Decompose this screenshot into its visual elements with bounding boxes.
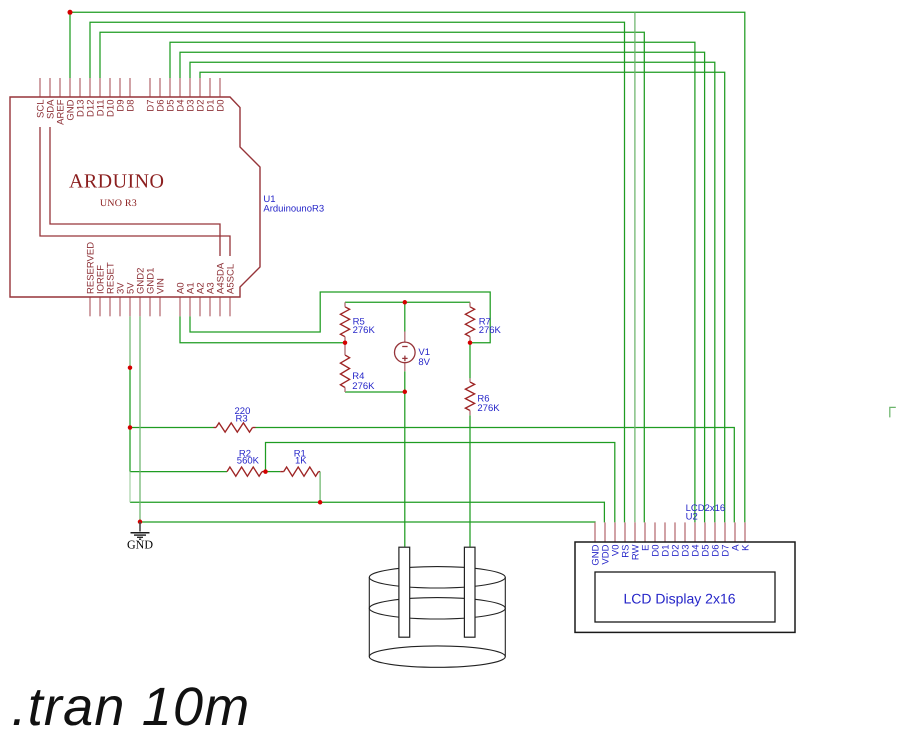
svg-text:U2: U2 <box>686 512 698 523</box>
svg-text:.tran 10m: .tran 10m <box>12 677 251 737</box>
svg-text:276K: 276K <box>353 325 376 336</box>
svg-text:8V: 8V <box>418 357 430 368</box>
svg-text:276K: 276K <box>352 381 375 392</box>
svg-text:ArduinounoR3: ArduinounoR3 <box>263 204 324 215</box>
svg-text:D0: D0 <box>215 100 226 112</box>
svg-text:R3: R3 <box>236 414 248 425</box>
svg-text:LCD Display 2x16: LCD Display 2x16 <box>623 591 735 607</box>
svg-text:UNO R3: UNO R3 <box>100 198 137 209</box>
svg-text:ARDUINO: ARDUINO <box>69 171 164 193</box>
svg-text:GND: GND <box>127 538 153 552</box>
svg-text:VIN: VIN <box>155 278 166 294</box>
svg-text:1K: 1K <box>295 456 307 467</box>
svg-text:K: K <box>740 544 751 551</box>
svg-text:276K: 276K <box>477 403 500 414</box>
svg-text:560K: 560K <box>237 456 260 467</box>
svg-text:A5SCL: A5SCL <box>225 264 236 294</box>
svg-text:276K: 276K <box>479 325 502 336</box>
svg-text:D8: D8 <box>125 100 136 112</box>
